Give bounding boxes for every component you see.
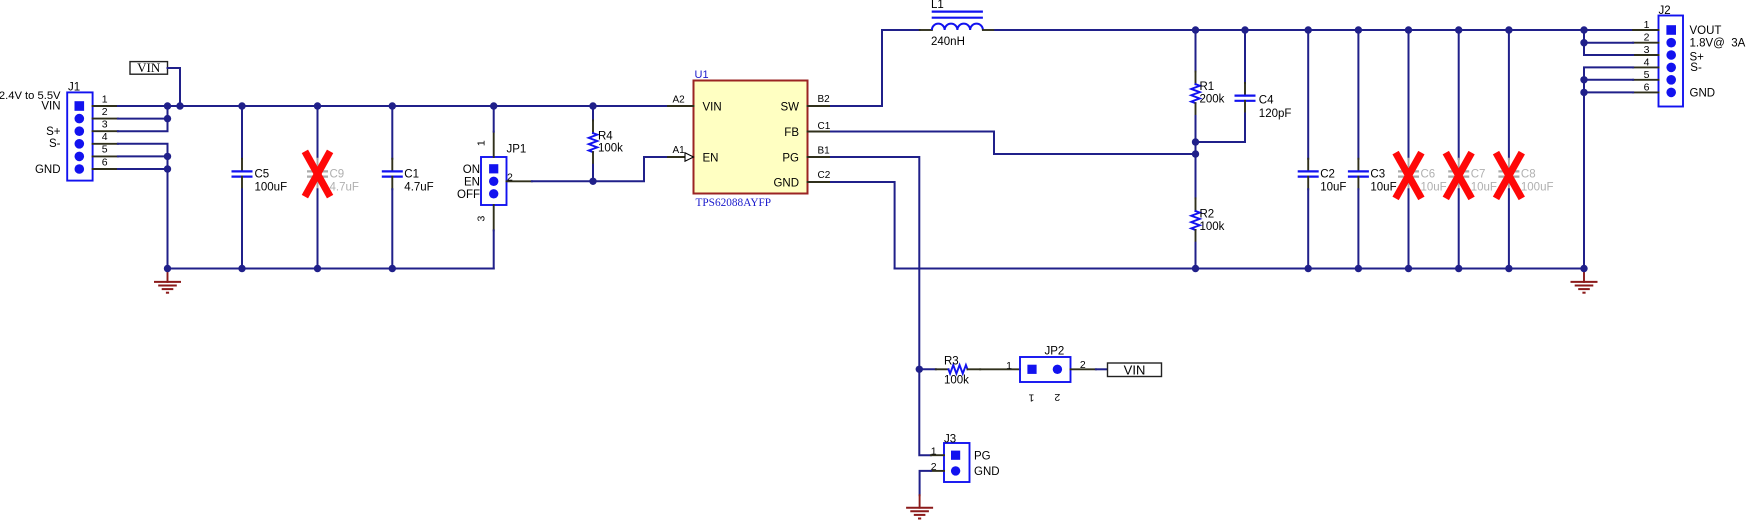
svg-text:J1: J1 <box>68 82 80 94</box>
svg-text:100uF: 100uF <box>1521 182 1554 194</box>
svg-text:120pF: 120pF <box>1259 108 1292 120</box>
svg-text:5: 5 <box>102 144 108 156</box>
svg-text:J3: J3 <box>944 433 956 445</box>
svg-text:VOUT: VOUT <box>1690 25 1722 37</box>
svg-text:SW: SW <box>780 102 799 114</box>
svg-text:EN: EN <box>464 176 480 188</box>
svg-text:EN: EN <box>703 152 719 164</box>
svg-text:S+: S+ <box>46 126 61 138</box>
svg-text:4: 4 <box>1644 56 1650 68</box>
svg-text:C1: C1 <box>404 169 419 181</box>
svg-text:1: 1 <box>102 93 108 105</box>
svg-text:C6: C6 <box>1421 169 1436 181</box>
svg-text:1: 1 <box>1028 392 1034 404</box>
svg-text:R1: R1 <box>1200 81 1215 93</box>
svg-text:JP1: JP1 <box>507 144 527 156</box>
svg-text:VIN: VIN <box>703 102 722 114</box>
svg-text:5: 5 <box>1644 69 1650 81</box>
svg-text:GND: GND <box>35 164 61 176</box>
svg-text:ON: ON <box>463 164 480 176</box>
svg-text:L1: L1 <box>931 0 944 11</box>
svg-text:6: 6 <box>1644 81 1650 93</box>
svg-text:2: 2 <box>931 461 937 473</box>
svg-text:3: 3 <box>1644 44 1650 56</box>
svg-text:C8: C8 <box>1521 169 1536 181</box>
svg-text:S-: S- <box>49 138 61 150</box>
svg-text:6: 6 <box>102 156 108 168</box>
svg-text:100k: 100k <box>944 374 969 386</box>
svg-text:100k: 100k <box>598 143 623 155</box>
svg-text:C4: C4 <box>1259 95 1274 107</box>
svg-text:3: 3 <box>475 216 487 222</box>
svg-text:2: 2 <box>102 106 108 118</box>
svg-text:JP2: JP2 <box>1045 346 1065 358</box>
svg-text:TPS62088AYFP: TPS62088AYFP <box>696 197 772 209</box>
svg-text:1: 1 <box>475 140 487 146</box>
svg-text:VIN: VIN <box>1124 362 1146 377</box>
svg-text:4.7uF: 4.7uF <box>330 182 359 194</box>
svg-text:10uF: 10uF <box>1471 182 1497 194</box>
svg-text:FB: FB <box>784 127 799 139</box>
svg-text:C7: C7 <box>1471 169 1486 181</box>
svg-text:240nH: 240nH <box>931 36 965 48</box>
svg-text:VIN: VIN <box>137 60 161 75</box>
svg-text:R4: R4 <box>598 131 613 143</box>
svg-text:GND: GND <box>1690 87 1716 99</box>
svg-text:GND: GND <box>974 466 1000 478</box>
svg-text:1: 1 <box>1644 19 1650 31</box>
svg-text:100k: 100k <box>1200 221 1225 233</box>
svg-text:R2: R2 <box>1200 208 1215 220</box>
svg-text:U1: U1 <box>695 69 709 81</box>
svg-text:VIN: VIN <box>41 101 60 113</box>
svg-text:1.8V@ 3A: 1.8V@ 3A <box>1690 37 1746 49</box>
svg-text:10uF: 10uF <box>1320 182 1346 194</box>
svg-text:A2: A2 <box>673 95 686 106</box>
svg-text:A1: A1 <box>673 145 686 156</box>
svg-text:GND: GND <box>773 178 799 190</box>
svg-text:3: 3 <box>102 119 108 131</box>
svg-text:1: 1 <box>931 445 937 457</box>
svg-text:R3: R3 <box>944 355 959 367</box>
svg-text:1: 1 <box>1006 360 1012 372</box>
svg-text:2: 2 <box>1054 391 1060 403</box>
svg-text:OFF: OFF <box>457 189 480 201</box>
svg-text:B1: B1 <box>818 145 831 156</box>
svg-text:C2: C2 <box>1320 169 1335 181</box>
svg-text:C5: C5 <box>255 169 270 181</box>
svg-text:10uF: 10uF <box>1421 182 1447 194</box>
svg-text:C1: C1 <box>818 121 831 132</box>
svg-text:J2: J2 <box>1659 5 1671 17</box>
svg-text:10uF: 10uF <box>1370 182 1396 194</box>
svg-text:4.7uF: 4.7uF <box>404 182 433 194</box>
svg-text:S-: S- <box>1690 62 1702 74</box>
svg-text:PG: PG <box>782 152 799 164</box>
svg-text:PG: PG <box>974 450 991 462</box>
svg-text:C2: C2 <box>818 170 831 181</box>
svg-text:200k: 200k <box>1200 93 1225 105</box>
svg-text:100uF: 100uF <box>255 182 288 194</box>
svg-text:B2: B2 <box>818 94 831 105</box>
svg-text:C3: C3 <box>1370 169 1385 181</box>
svg-text:2: 2 <box>1644 32 1650 44</box>
svg-text:C9: C9 <box>330 169 345 181</box>
svg-text:2: 2 <box>1080 359 1086 371</box>
svg-text:2: 2 <box>507 172 513 184</box>
svg-text:4: 4 <box>102 131 108 143</box>
